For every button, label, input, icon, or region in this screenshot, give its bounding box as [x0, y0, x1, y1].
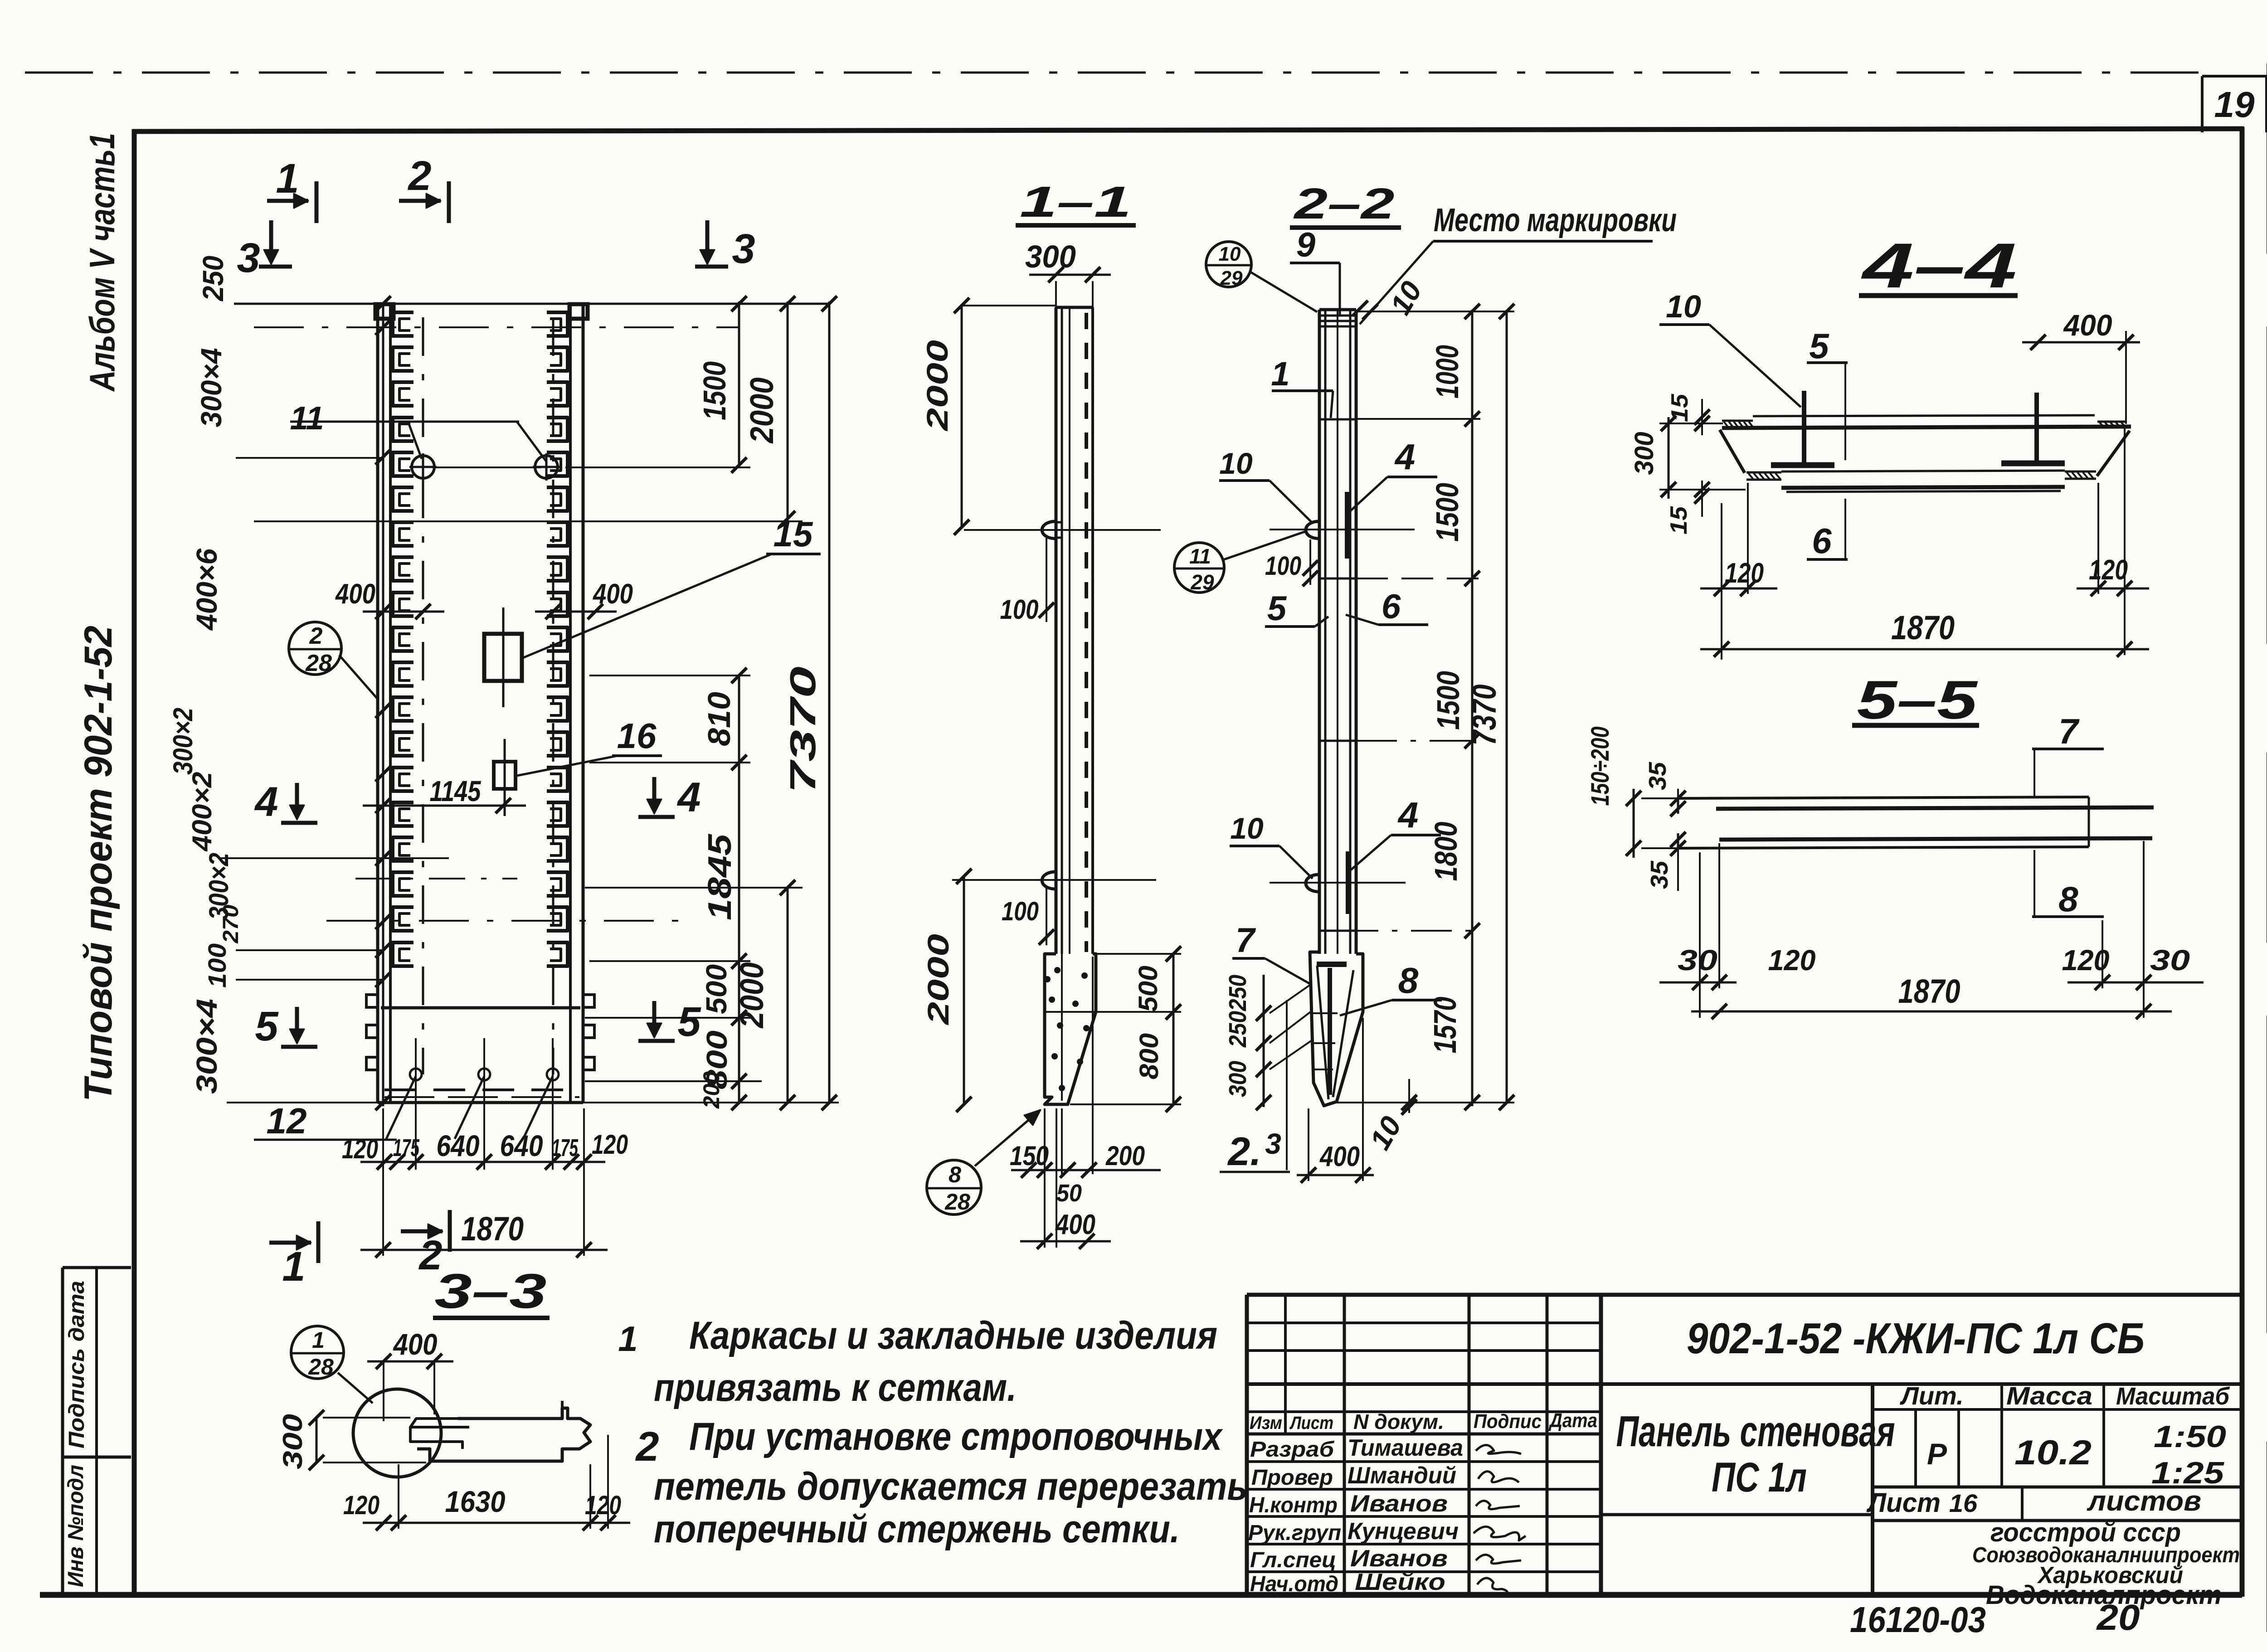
slab 5-5 bottom line — [1678, 847, 2089, 848]
svg-text:Подпись дата: Подпись дата — [65, 1281, 89, 1448]
svg-text:1500: 1500 — [1430, 483, 1465, 542]
svg-text:Н.контр: Н.контр — [1249, 1493, 1338, 1517]
strip 1-1 keyed edge dashes — [1085, 313, 1088, 952]
svg-text:28: 28 — [944, 1189, 970, 1215]
panel vertical centerline right dash-dot — [552, 317, 555, 1074]
svg-text:Лит.: Лит. — [1899, 1381, 1963, 1410]
svg-text:Масштаб: Масштаб — [2116, 1383, 2230, 1410]
title block left table verticals — [1284, 1295, 1287, 1434]
signature squiggles — [1476, 1445, 1521, 1454]
panel level extension line 2000 right chain — [254, 520, 803, 522]
panel right chain extension lines — [589, 675, 750, 676]
section marker 4 right — [652, 777, 657, 810]
panel 4-4 top thick line — [1722, 427, 2131, 428]
svg-text:4: 4 — [1397, 795, 1419, 835]
panel 4-4 bottom thick line — [1781, 487, 2065, 488]
svg-text:7370: 7370 — [783, 666, 823, 793]
strip 2-2 marking cap lines — [1319, 315, 1356, 317]
loop level line 1-1 upper — [964, 529, 1161, 531]
svg-text:5–5: 5–5 — [1857, 670, 1979, 730]
dims 250-250-300 left of foot — [1263, 975, 1265, 1107]
svg-text:1: 1 — [618, 1319, 637, 1359]
rebar 4 lower bar — [1346, 851, 1350, 914]
svg-text:Иванов: Иванов — [1350, 1545, 1448, 1572]
svg-text:100: 100 — [1000, 594, 1039, 625]
leader from marking label to strip — [1360, 241, 1433, 324]
panel 4-4 left slant edge — [1720, 430, 1745, 473]
svg-text:300: 300 — [1224, 1061, 1251, 1097]
svg-text:1845: 1845 — [702, 834, 738, 920]
svg-text:Гл.спец: Гл.спец — [1250, 1548, 1336, 1572]
section marker 3 top-right — [705, 220, 710, 261]
svg-text:Типовой проект 902-1-52: Типовой проект 902-1-52 — [77, 626, 120, 1102]
svg-text:29: 29 — [1190, 570, 1214, 594]
leader diagonals to anchors — [386, 1076, 416, 1139]
panel 4-4 top thin line — [1753, 415, 2095, 416]
slab 5-5 right end edge — [2088, 797, 2090, 847]
left margin stamp table — [63, 1266, 131, 1269]
foot level lines — [1312, 1012, 1338, 1014]
title zone divider — [1601, 1513, 1873, 1516]
svg-text:4: 4 — [1394, 437, 1416, 477]
callout circle 2/28 — [289, 622, 341, 675]
svg-text:5: 5 — [677, 999, 701, 1045]
detail circle 3-3 — [353, 1389, 441, 1477]
svg-text:19: 19 — [2214, 84, 2255, 125]
section marker 1 bottom — [269, 1241, 311, 1245]
svg-text:400: 400 — [335, 578, 375, 610]
sheet number box 19 — [2201, 76, 2204, 132]
svg-text:120: 120 — [1725, 558, 1764, 589]
svg-text:200: 200 — [699, 1071, 724, 1109]
panel bottom zone dashed lines — [384, 1088, 579, 1091]
rebar 4 upper bar — [1345, 492, 1349, 559]
panel wire-mesh hooks right column — [547, 312, 568, 336]
lifting loop bump upper 1-1 — [1042, 521, 1056, 539]
extension lines to 2-2 dimension chain — [1356, 311, 1514, 312]
panel overall dim 1870 — [382, 1108, 384, 1256]
panel right rail outer line — [582, 304, 585, 1103]
svg-text:6: 6 — [1382, 588, 1401, 626]
loop level line 2-2 lower — [1270, 882, 1406, 884]
embedded item 16 rectangle — [494, 762, 516, 789]
svg-text:Иванов: Иванов — [1350, 1491, 1448, 1517]
svg-text:300: 300 — [277, 1414, 308, 1469]
svg-text:2: 2 — [407, 153, 431, 199]
panel left rail formwork keys — [366, 995, 378, 1007]
svg-text:1:25: 1:25 — [2151, 1456, 2224, 1490]
dim 2000 lower-left of 1-1 — [963, 876, 965, 1104]
foot concrete dots — [1054, 967, 1061, 973]
svg-text:16120-03: 16120-03 — [1850, 1599, 1986, 1640]
svg-text:7370: 7370 — [1465, 685, 1503, 746]
svg-text:4: 4 — [254, 779, 278, 825]
lifting loop symbol right — [535, 456, 558, 478]
panel left rail outer line — [376, 304, 379, 1103]
dim 100 below loop 2-2 — [1309, 539, 1311, 585]
svg-text:Лист: Лист — [1289, 1413, 1333, 1433]
svg-text:5: 5 — [255, 1003, 279, 1050]
svg-text:100: 100 — [203, 943, 231, 988]
svg-text:2000: 2000 — [921, 934, 955, 1026]
svg-text:2000: 2000 — [744, 378, 780, 444]
svg-text:4: 4 — [676, 774, 701, 821]
svg-text:Место маркировки: Место маркировки — [1434, 202, 1677, 238]
panel level extension line 300x4 end — [236, 457, 383, 459]
dimension chain 2-2 right — [1471, 310, 1474, 1106]
svg-text:2000: 2000 — [920, 340, 954, 432]
svg-text:петель допускается перерезать: петель допускается перерезать — [654, 1465, 1248, 1508]
svg-text:35: 35 — [1644, 762, 1671, 790]
svg-text:100: 100 — [1265, 551, 1301, 581]
svg-text:10.2: 10.2 — [2014, 1433, 2092, 1472]
svg-text:270: 270 — [219, 904, 243, 943]
svg-text:Лист: Лист — [1866, 1487, 1941, 1518]
loop level line — [435, 466, 541, 468]
svg-text:2: 2 — [309, 623, 323, 649]
title block outer lines — [1247, 1293, 2242, 1297]
panel horizontal centerline row1 dash-dot — [254, 326, 739, 328]
svg-text:привязать к сеткам.: привязать к сеткам. — [654, 1366, 1017, 1409]
foot rebar horizontal bar — [1317, 962, 1347, 967]
right pin rebar 4-4 — [2034, 393, 2039, 466]
left pin rebar 4-4 — [1802, 391, 1806, 468]
callout circle 8/28 with leader — [927, 1160, 981, 1215]
svg-text:Кунцевич: Кунцевич — [1348, 1518, 1459, 1545]
strip edge line continuing in foot — [1061, 954, 1063, 1101]
svg-text:28: 28 — [305, 650, 332, 676]
panel 4-4 left bottom hatch strip — [1746, 471, 1781, 474]
svg-text:28: 28 — [308, 1354, 334, 1380]
svg-text:10: 10 — [1230, 811, 1264, 845]
svg-text:7: 7 — [2058, 711, 2080, 751]
lifting loop symbol left — [412, 456, 434, 478]
svg-text:7: 7 — [1236, 921, 1256, 960]
svg-text:Дата: Дата — [1548, 1409, 1597, 1432]
svg-text:5: 5 — [1809, 326, 1829, 366]
svg-text:8: 8 — [1398, 960, 1419, 1001]
bar 3-3 hook inner lines — [410, 1419, 469, 1427]
svg-text:11: 11 — [1189, 544, 1211, 568]
dim 35 top 5-5 — [1677, 789, 1679, 798]
left pin bottom bar — [1771, 462, 1834, 468]
svg-text:15: 15 — [1667, 394, 1693, 422]
overall dim 1870 of 4-4 — [1700, 648, 2149, 651]
foot of 2-2 outline — [1310, 952, 1363, 1106]
foot block of 1-1 — [1045, 954, 1096, 1104]
svg-text:400: 400 — [2063, 308, 2112, 342]
loop level line 1-1 lower — [952, 879, 1156, 881]
svg-text:50: 50 — [1056, 1180, 1082, 1207]
svg-text:8: 8 — [949, 1162, 961, 1187]
svg-text:листов: листов — [2087, 1486, 2201, 1517]
panel 4-4 left hatch strip — [1722, 420, 1753, 422]
embedded item 15 rectangle — [484, 634, 522, 681]
svg-text:175: 175 — [552, 1134, 579, 1161]
svg-text:500: 500 — [700, 964, 733, 1014]
lifting loop bump upper 2-2 — [1306, 521, 1319, 539]
panel bottom edge extension left — [227, 1102, 378, 1103]
svg-text:2: 2 — [635, 1424, 659, 1470]
dim line col A of panel — [738, 301, 740, 467]
svg-text:250: 250 — [1224, 1011, 1251, 1048]
svg-text:1: 1 — [1271, 355, 1289, 393]
svg-text:400×2: 400×2 — [187, 772, 217, 852]
svg-text:ПС 1л: ПС 1л — [1712, 1454, 1807, 1501]
svg-text:400: 400 — [393, 1327, 438, 1361]
svg-text:300×4: 300×4 — [195, 348, 228, 428]
svg-text:Нач.отд: Нач.отд — [1250, 1572, 1338, 1596]
panel right rail inner line — [569, 304, 572, 1103]
svg-text:3: 3 — [237, 235, 260, 281]
svg-text:200: 200 — [1105, 1141, 1145, 1171]
svg-text:1–1: 1–1 — [1020, 178, 1131, 226]
svg-text:300: 300 — [1630, 432, 1659, 475]
svg-text:1870: 1870 — [461, 1210, 524, 1248]
main frame border bottom — [40, 1592, 2242, 1598]
panel bottom dim row 120-175-640-640-175-120 — [360, 1161, 605, 1163]
panel bottom edge line — [378, 1101, 583, 1104]
svg-text:8: 8 — [2058, 879, 2078, 919]
svg-text:Шейко: Шейко — [1355, 1569, 1445, 1595]
svg-text:Р: Р — [1927, 1437, 1947, 1471]
svg-text:5: 5 — [1267, 589, 1287, 628]
svg-text:400: 400 — [1055, 1209, 1095, 1240]
svg-text:400: 400 — [1319, 1141, 1360, 1172]
svg-text:300×4: 300×4 — [190, 999, 223, 1094]
main frame border top — [132, 129, 2244, 131]
svg-text:20: 20 — [2096, 1597, 2140, 1637]
svg-text:640: 640 — [437, 1129, 480, 1162]
svg-text:N докум.: N докум. — [1353, 1410, 1444, 1433]
strip 1-1 outline — [1056, 306, 1093, 309]
svg-text:1570: 1570 — [1427, 996, 1463, 1053]
svg-text:10: 10 — [1666, 289, 1701, 324]
dims 150-200 under foot — [1011, 1169, 1161, 1171]
svg-text:1:50: 1:50 — [2154, 1419, 2226, 1454]
callout circle 11/29 with leader — [1174, 543, 1224, 593]
svg-text:250: 250 — [1224, 975, 1251, 1011]
panel bottom zone top line — [381, 1006, 580, 1010]
bar 3-3 stub — [561, 1401, 564, 1408]
svg-text:35: 35 — [1646, 860, 1673, 889]
svg-text:При установке строповочных: При установке строповочных — [689, 1415, 1223, 1458]
dim 2000 upper-left of 1-1 — [961, 306, 963, 527]
dims 120-1630-120 under 3-3 — [363, 1522, 630, 1524]
svg-text:30: 30 — [2150, 944, 2190, 977]
panel left dimension chain line — [382, 304, 384, 1106]
svg-text:400×6: 400×6 — [190, 549, 223, 631]
svg-text:Каркасы и закладные изделия: Каркасы и закладные изделия — [689, 1314, 1217, 1357]
svg-text:29: 29 — [1220, 267, 1243, 289]
foot rebar vertical bar — [1328, 968, 1332, 1095]
section marker 2 bottom — [401, 1229, 443, 1234]
panel 4-4 bottom recess line — [1781, 471, 2065, 471]
svg-text:150: 150 — [1010, 1141, 1049, 1171]
strip 2-2 outline — [1319, 308, 1356, 311]
panel wire-mesh hooks left column — [393, 312, 414, 336]
svg-text:810: 810 — [701, 692, 737, 746]
svg-text:300: 300 — [1025, 239, 1076, 274]
loop level line 2-2 upper — [1270, 529, 1415, 530]
svg-text:Альбом V часть1: Альбом V часть1 — [82, 133, 122, 392]
svg-text:12: 12 — [267, 1101, 307, 1141]
overall dim 7370 of 2-2 — [1506, 311, 1508, 1103]
svg-text:Шмандий: Шмандий — [1348, 1463, 1456, 1489]
svg-text:1870: 1870 — [1898, 972, 1961, 1010]
callout circle 1/28 with leader — [291, 1326, 344, 1379]
svg-text:120: 120 — [342, 1134, 378, 1164]
svg-text:1: 1 — [312, 1327, 325, 1353]
svg-text:1800: 1800 — [1428, 821, 1464, 881]
title block divider under code — [1601, 1382, 2242, 1386]
svg-text:120: 120 — [2089, 554, 2128, 586]
panel lower dash-dot level — [326, 920, 681, 922]
svg-text:1: 1 — [282, 1244, 305, 1290]
strip 2-2 joint lines — [1319, 418, 1356, 421]
top dash-dot margin line — [25, 72, 2201, 74]
svg-text:250: 250 — [197, 256, 229, 301]
panel 4-4 right slant edge — [2097, 431, 2130, 476]
right pin bottom bar — [2001, 461, 2065, 466]
dim 100 below lower loop — [1046, 886, 1047, 945]
svg-text:1145: 1145 — [430, 775, 482, 807]
svg-text:Изм: Изм — [1250, 1413, 1282, 1433]
svg-text:30: 30 — [1678, 944, 1717, 977]
main frame border left — [132, 129, 137, 1597]
title block left table horizontals — [1247, 1322, 1601, 1324]
svg-text:Панель стеновая: Панель стеновая — [1616, 1407, 1895, 1456]
svg-text:2000: 2000 — [734, 962, 770, 1029]
panel lower extension lines — [236, 949, 383, 951]
svg-text:2–2: 2–2 — [1293, 180, 1395, 228]
svg-text:120: 120 — [592, 1129, 628, 1160]
svg-text:800: 800 — [1134, 1033, 1164, 1079]
section marker 5 right — [652, 1001, 657, 1034]
panel bottom anchor circles — [410, 1069, 422, 1080]
svg-text:640: 640 — [500, 1129, 543, 1162]
slab 5-5 top rebar — [1716, 807, 2154, 809]
lit sub-cells — [1914, 1409, 1917, 1487]
foot of 2-2 inner taper lines — [1317, 966, 1328, 1099]
dim 10 top of 2-2 — [1352, 301, 1368, 316]
lifting loop bump lower 1-1 — [1042, 872, 1056, 889]
bar 3-3 outline — [417, 1408, 590, 1461]
svg-text:120: 120 — [343, 1491, 379, 1520]
svg-text:15: 15 — [774, 514, 813, 554]
svg-text:Масса: Масса — [2006, 1381, 2092, 1410]
svg-text:Рук.груп: Рук.груп — [1248, 1521, 1341, 1545]
svg-text:100: 100 — [1002, 897, 1039, 926]
svg-text:16: 16 — [1949, 1489, 1978, 1517]
panel vertical centerline left dash-dot — [422, 317, 424, 1074]
svg-text:175: 175 — [393, 1134, 420, 1161]
panel 4-4 right hatch strip — [2097, 421, 2126, 423]
overall dim 1870 of 5-5 — [1691, 1011, 2172, 1013]
svg-text:500: 500 — [1133, 966, 1163, 1012]
slab 5-5 top line — [1678, 797, 2089, 798]
svg-text:Провер: Провер — [1251, 1466, 1333, 1490]
svg-text:поперечный стержень сетки.: поперечный стержень сетки. — [654, 1507, 1180, 1551]
extension line to note 2.3 — [1286, 1000, 1288, 1170]
panel top edge line — [234, 303, 830, 305]
overall dim 7370 panel — [828, 301, 831, 1103]
lit massa masshtab column — [1871, 1384, 1874, 1595]
svg-text:3–3: 3–3 — [435, 1263, 547, 1318]
svg-text:16: 16 — [617, 716, 657, 756]
svg-text:11: 11 — [290, 400, 324, 437]
svg-text:1870: 1870 — [1891, 609, 1955, 646]
dim 500-800 right of foot — [1096, 953, 1181, 955]
panel right rail formwork keys — [583, 995, 594, 1007]
dim line col B of panel — [787, 301, 789, 521]
svg-text:6: 6 — [1812, 521, 1832, 561]
page right edge scan artifact — [2267, 63, 2267, 1652]
panel right rail top cap — [569, 304, 588, 319]
main frame border right — [2240, 127, 2245, 1597]
svg-text:1630: 1630 — [445, 1485, 506, 1518]
slab 5-5 bottom rebar — [1719, 838, 2152, 840]
panel left rail inner line — [389, 304, 392, 1103]
svg-text:1000: 1000 — [1430, 345, 1465, 398]
dims 30-120 and 120-30 under 5-5 — [1659, 981, 1737, 984]
svg-text:150÷200: 150÷200 — [1586, 727, 1614, 806]
svg-text:2.: 2. — [1227, 1129, 1261, 1174]
callout circle 10/29 — [1206, 242, 1251, 287]
dim 10 bottom right of 2-2 — [1408, 1079, 1410, 1113]
dims 15-300-15 left of 4-4 — [1659, 423, 1723, 424]
svg-text:120: 120 — [1768, 944, 1816, 977]
svg-text:15: 15 — [1666, 506, 1692, 534]
lifting loop bump lower 2-2 — [1306, 875, 1319, 892]
svg-text:9: 9 — [1296, 226, 1315, 264]
svg-text:10: 10 — [1219, 243, 1241, 265]
svg-text:400: 400 — [592, 578, 633, 610]
svg-text:902-1-52 -КЖИ-ПС 1л СБ: 902-1-52 -КЖИ-ПС 1л СБ — [1687, 1314, 2145, 1363]
svg-text:Разраб: Разраб — [1250, 1438, 1334, 1462]
panel 4-4 right bottom hatch strip — [2065, 471, 2096, 473]
svg-text:1500: 1500 — [697, 361, 732, 420]
foot bottom extension lines — [1044, 1108, 1046, 1248]
dim 300 left of 3-3 — [316, 1418, 318, 1463]
svg-text:Тимашева: Тимашева — [1348, 1435, 1463, 1461]
svg-text:4–4: 4–4 — [1861, 230, 2017, 301]
slab 5-5 left end ticks — [1677, 798, 1679, 814]
section 4-4 cut plane dash-dot — [355, 878, 517, 879]
hatch leaders to foot — [1270, 984, 1312, 1013]
svg-text:10: 10 — [1219, 447, 1253, 480]
svg-text:1500: 1500 — [1430, 671, 1466, 730]
panel left rail top cap — [375, 304, 394, 319]
svg-text:3: 3 — [1265, 1127, 1281, 1160]
dim 100 below upper loop — [1046, 535, 1047, 622]
svg-text:Подпис: Подпис — [1474, 1410, 1542, 1433]
svg-text:3: 3 — [732, 226, 755, 272]
svg-text:300×2: 300×2 — [168, 708, 198, 775]
panel interior extension line — [221, 857, 449, 859]
svg-text:Инв №подл: Инв №подл — [64, 1465, 88, 1587]
